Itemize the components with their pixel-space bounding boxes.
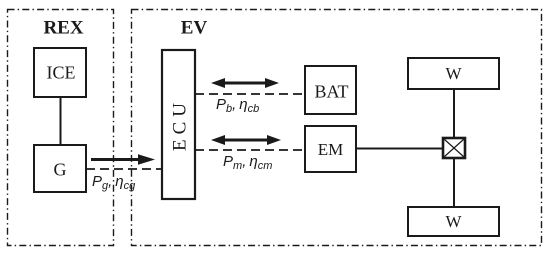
ECU block: [162, 50, 195, 199]
wire EM to gearbox: [356, 148, 443, 150]
EV subsystem dash-dot boundary box: [132, 10, 542, 246]
BAT block: [305, 66, 356, 114]
svg-text:REX: REX: [43, 18, 83, 39]
double arrow ECU-BAT: [211, 78, 279, 88]
svg-text:W: W: [445, 64, 462, 83]
power flow arrow G to ECU: [91, 154, 155, 165]
EM block: [305, 126, 356, 172]
dashed wire G to ECU: [86, 168, 162, 170]
dashed wire ECU to EM: [195, 149, 305, 151]
svg-text:ICE: ICE: [47, 63, 76, 83]
svg-text:BAT: BAT: [314, 82, 348, 102]
svg-text:EV: EV: [181, 18, 208, 39]
bottom wheel W block: [408, 207, 499, 236]
generator G block: [34, 145, 86, 192]
svg-text:G: G: [54, 160, 67, 180]
REX subsystem dash-dot boundary box: [8, 10, 114, 246]
ICE block: [34, 48, 86, 97]
svg-text:EM: EM: [318, 140, 344, 159]
wire gearbox to bottom W: [453, 158, 455, 207]
gearbox / differential crossed box: [443, 138, 465, 158]
dashed wire ECU to BAT: [195, 93, 305, 95]
svg-text:ECU: ECU: [170, 98, 191, 151]
svg-text:W: W: [445, 212, 462, 231]
wire ICE to G: [60, 97, 62, 145]
double arrow ECU-EM: [211, 135, 281, 145]
wire top W to gearbox: [453, 89, 455, 138]
top wheel W block: [408, 58, 499, 89]
